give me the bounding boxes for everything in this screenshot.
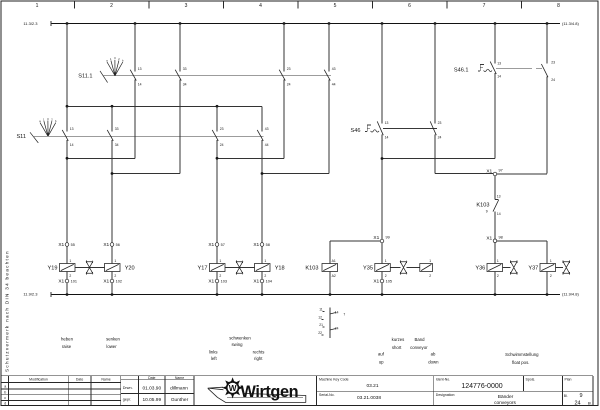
- coil Y19: [48, 259, 75, 278]
- svg-text:99: 99: [386, 236, 390, 240]
- svg-text:(11.9/4.8): (11.9/4.8): [562, 292, 579, 297]
- svg-text:raise: raise: [62, 344, 72, 349]
- svg-text:senken: senken: [106, 337, 120, 342]
- svg-text:13: 13: [138, 67, 142, 71]
- svg-text:Ident-No.: Ident-No.: [436, 378, 450, 382]
- svg-text:X1: X1: [208, 242, 214, 248]
- terminal X1:98: [486, 235, 502, 242]
- svg-text:lower: lower: [106, 344, 117, 349]
- svg-text:9: 9: [579, 393, 582, 399]
- svg-text:103: 103: [221, 280, 227, 284]
- function label links/left: [209, 350, 218, 362]
- svg-text:2: 2: [110, 3, 113, 9]
- wire X1:99 branch to K103 coil: [330, 241, 380, 264]
- svg-text:1: 1: [43, 117, 45, 121]
- function label heben/raise: [61, 337, 74, 349]
- svg-text:22: 22: [318, 331, 322, 335]
- coil K103: [305, 259, 337, 278]
- junction top bus x329: [328, 22, 331, 25]
- junction bottom bus x112: [111, 293, 114, 296]
- coil Y36: [475, 259, 502, 278]
- svg-text:Y20: Y20: [125, 266, 135, 272]
- svg-text:14: 14: [497, 212, 501, 216]
- contact S46.1 23/24: [541, 24, 555, 174]
- svg-text:23: 23: [551, 61, 555, 65]
- Wirtgen logo gear emblem: [223, 378, 242, 397]
- terminal X1:58: [253, 242, 270, 248]
- svg-text:a: a: [39, 120, 41, 123]
- svg-text:2: 2: [264, 274, 266, 278]
- svg-text:55: 55: [71, 243, 75, 247]
- svg-text:Date: Date: [76, 377, 83, 381]
- svg-text:a: a: [106, 59, 108, 62]
- svg-text:K103: K103: [305, 266, 318, 272]
- junction x217 y158: [216, 157, 219, 160]
- function label kurzes Band/short conveyor: [392, 337, 428, 350]
- junction x382 y158: [381, 157, 384, 160]
- svg-text:03.21: 03.21: [366, 383, 378, 389]
- contact S11.1 13/14: [130, 24, 141, 159]
- svg-text:14: 14: [497, 74, 501, 78]
- svg-text:X1: X1: [208, 279, 214, 285]
- terminal X1:101: [58, 279, 77, 285]
- junction x112 y173: [111, 172, 114, 175]
- svg-text:101: 101: [71, 280, 77, 284]
- svg-text:Serial-No.: Serial-No.: [319, 393, 335, 397]
- svg-text:5: 5: [334, 3, 337, 9]
- svg-text:11: 11: [319, 307, 323, 311]
- svg-text:dillmann: dillmann: [170, 385, 188, 391]
- coil Y20: [105, 259, 135, 278]
- svg-text:X1: X1: [373, 235, 379, 241]
- svg-text:11.3/2.3: 11.3/2.3: [23, 21, 38, 26]
- contact S46.1 13/14: [490, 24, 501, 159]
- svg-text:33: 33: [183, 67, 187, 71]
- svg-text:01.03.90: 01.03.90: [142, 385, 161, 391]
- svg-text:Designation:: Designation:: [436, 393, 455, 397]
- svg-text:Bänder: Bänder: [498, 394, 514, 400]
- svg-text:short: short: [392, 345, 402, 350]
- switch S11 actuator: [16, 117, 57, 143]
- svg-text:b: b: [122, 58, 124, 62]
- contact S11 23/24: [212, 106, 223, 242]
- svg-text:1: 1: [550, 259, 552, 263]
- svg-text:2: 2: [114, 274, 116, 278]
- svg-text:13: 13: [70, 127, 74, 131]
- wire X1:56 to Y20: [111, 246, 113, 263]
- svg-text:Wirtgen: Wirtgen: [241, 383, 299, 401]
- svg-text:X1: X1: [253, 242, 259, 248]
- svg-text:X1: X1: [58, 242, 64, 248]
- svg-text:d: d: [4, 401, 6, 405]
- svg-text:24: 24: [287, 83, 291, 87]
- svg-text:heben: heben: [61, 337, 74, 342]
- wire bus to S11 rail x67: [66, 24, 68, 107]
- svg-text:swing: swing: [232, 342, 244, 347]
- svg-text:X1: X1: [103, 242, 109, 248]
- S11 mechanical link: [34, 135, 264, 137]
- svg-text:X1: X1: [486, 235, 492, 241]
- svg-text:44: 44: [265, 143, 269, 147]
- wire X1:104 to bus: [261, 283, 263, 294]
- svg-text:33: 33: [115, 127, 119, 131]
- revision row letters a-d: [4, 384, 6, 405]
- svg-text:schwenken: schwenken: [229, 335, 251, 340]
- svg-text:Schwimmstellung: Schwimmstellung: [505, 352, 539, 357]
- junction top bus x547: [546, 22, 549, 25]
- svg-text:conveyor: conveyor: [410, 345, 428, 350]
- svg-text:13: 13: [385, 121, 389, 125]
- junction bottom bus x382: [381, 293, 384, 296]
- junction top bus x135: [134, 22, 137, 25]
- svg-text:124776-0000: 124776-0000: [461, 383, 502, 390]
- svg-text:2: 2: [69, 274, 71, 278]
- wire S11 feed rail y106: [67, 105, 262, 107]
- contact S11.1 43/44: [324, 24, 335, 174]
- svg-text:7: 7: [343, 313, 345, 317]
- function label auf/up: [378, 352, 385, 365]
- svg-text:6: 6: [408, 3, 411, 9]
- svg-text:1: 1: [69, 259, 71, 263]
- junction bottom bus x495: [494, 293, 497, 296]
- svg-text:10.05.99: 10.05.99: [142, 397, 161, 403]
- contact S11 13/14: [62, 106, 73, 242]
- svg-text:1: 1: [429, 259, 431, 263]
- svg-text:left: left: [211, 356, 218, 361]
- svg-text:7: 7: [483, 3, 486, 9]
- svg-text:1: 1: [385, 259, 387, 263]
- svg-text:c: c: [4, 396, 6, 400]
- wire X1:97 to K103 contact: [495, 176, 499, 200]
- svg-text:conveyors: conveyors: [494, 400, 516, 406]
- contact S11.1 23/24: [279, 24, 290, 159]
- svg-text:A1: A1: [332, 259, 336, 263]
- svg-text:Schutzvermerk nach DIN 34 beac: Schutzvermerk nach DIN 34 beachten: [5, 250, 10, 372]
- coil Y37: [528, 259, 555, 278]
- svg-text:Band: Band: [414, 337, 425, 342]
- svg-text:03.21.0038: 03.21.0038: [357, 395, 381, 401]
- wire S11.1(34) to Y20 branch y173: [112, 173, 180, 175]
- junction bottom bus x262: [261, 293, 264, 296]
- junction x67 y158: [66, 157, 69, 160]
- svg-text:X1: X1: [58, 279, 64, 285]
- wire X1:57 to Y17: [216, 246, 218, 263]
- S46 mechanical link: [383, 128, 437, 130]
- svg-text:1: 1: [497, 259, 499, 263]
- wire Y19 to X1:101: [66, 272, 68, 280]
- svg-text:auf: auf: [378, 352, 385, 357]
- svg-text:43: 43: [332, 67, 336, 71]
- svg-text:56: 56: [116, 243, 120, 247]
- svg-text:S11.1: S11.1: [78, 74, 92, 80]
- node L- bottom bus wire: [51, 292, 560, 297]
- wire S46.1(14) down-left to x382 y158: [382, 158, 495, 160]
- switch S11.1 actuator: [78, 56, 124, 82]
- wire X1:102 to bus: [111, 283, 113, 294]
- terminal X1:104: [253, 279, 272, 285]
- terminal X1:102: [103, 279, 122, 285]
- svg-text:8: 8: [557, 3, 560, 9]
- function label rechts/right: [253, 350, 265, 362]
- svg-text:13: 13: [497, 62, 501, 66]
- svg-text:23: 23: [220, 127, 224, 131]
- svg-text:ab: ab: [431, 352, 436, 357]
- svg-text:links: links: [209, 350, 218, 355]
- svg-text:9: 9: [486, 210, 488, 214]
- S46.1 mechanical link: [496, 67, 542, 69]
- svg-text:34: 34: [183, 83, 187, 87]
- junction top bus x180: [179, 22, 182, 25]
- svg-text:0: 0: [47, 117, 49, 121]
- wire K103 to bus: [329, 272, 331, 295]
- svg-text:right: right: [254, 356, 263, 361]
- wire X1:98 to Y36: [494, 243, 496, 264]
- column numbers 1-8: [36, 3, 561, 9]
- svg-text:Gunther: Gunther: [171, 397, 189, 403]
- svg-text:Plan: Plan: [565, 378, 572, 382]
- function label Schwimmstellung/float pos.: [505, 352, 539, 365]
- coil Y17: [198, 259, 225, 278]
- svg-text:Y36: Y36: [475, 266, 485, 272]
- svg-text:24: 24: [574, 400, 580, 406]
- svg-text:Date: Date: [148, 376, 155, 380]
- svg-text:W: W: [229, 384, 237, 393]
- svg-text:S11: S11: [16, 134, 26, 140]
- wire X1:103 to bus: [216, 283, 218, 294]
- svg-text:23: 23: [287, 67, 291, 71]
- junction bottom bus x67: [66, 293, 69, 296]
- junction top bus x435: [434, 22, 437, 25]
- svg-text:float pos.: float pos.: [512, 360, 529, 365]
- svg-text:44: 44: [332, 83, 336, 87]
- svg-text:2: 2: [497, 274, 499, 278]
- svg-text:Name: Name: [101, 377, 110, 381]
- svg-text:34: 34: [115, 143, 119, 147]
- wire S46(24)+S46.1(24) to terminal X1:97 y173: [435, 172, 547, 174]
- valve symbol Y17/Y18: [225, 260, 255, 274]
- function label senken/lower: [106, 337, 120, 349]
- junction top bus x284: [283, 22, 286, 25]
- svg-text:X1: X1: [373, 279, 379, 285]
- svg-text:Drwn.: Drwn.: [123, 386, 133, 390]
- svg-text:4: 4: [259, 3, 262, 9]
- contact S46 23/24: [430, 24, 441, 174]
- svg-text:A2: A2: [332, 274, 336, 278]
- svg-text:23: 23: [438, 121, 442, 125]
- svg-text:3: 3: [185, 3, 188, 9]
- svg-text:13: 13: [497, 194, 501, 198]
- svg-text:Y35: Y35: [363, 266, 373, 272]
- svg-text:2: 2: [429, 274, 431, 278]
- junction rail x217: [216, 105, 219, 108]
- svg-text:12: 12: [318, 316, 322, 320]
- svg-text:K103: K103: [476, 203, 489, 209]
- function label ab/down: [428, 352, 439, 365]
- junction bottom bus x547: [546, 293, 549, 296]
- svg-text:Y37: Y37: [528, 266, 538, 272]
- svg-text:1: 1: [264, 259, 266, 263]
- svg-text:(11.3/4.8): (11.3/4.8): [562, 21, 579, 26]
- valve symbol Y19/Y20: [75, 260, 105, 274]
- svg-text:24: 24: [220, 143, 224, 147]
- node L+ top bus wire: [51, 21, 560, 26]
- wire X1:98 branch to Y37: [497, 241, 547, 264]
- svg-text:kurzes: kurzes: [392, 337, 405, 342]
- svg-text:2: 2: [51, 117, 53, 121]
- coil Y18: [255, 259, 285, 278]
- svg-text:Y19: Y19: [48, 266, 58, 272]
- junction bottom bus x217: [216, 293, 219, 296]
- svg-text:24: 24: [438, 136, 442, 140]
- Wirtgen logo machine silhouette: [208, 387, 306, 402]
- svg-text:58: 58: [266, 243, 270, 247]
- svg-text:Machine Key Code: Machine Key Code: [319, 378, 349, 382]
- wire S11.1(14) to Y19 branch y158: [67, 157, 135, 159]
- svg-text:14: 14: [335, 310, 339, 314]
- function label schwenken/swing: [229, 335, 251, 347]
- junction top bus x67: [66, 22, 69, 25]
- terminal X1:103: [208, 279, 227, 285]
- wire Y17 to X1:103: [216, 272, 218, 280]
- svg-text:105: 105: [386, 280, 392, 284]
- svg-text:1: 1: [36, 3, 39, 9]
- wire S11.1(24) to Y17 branch y158: [217, 157, 284, 159]
- svg-text:Y18: Y18: [275, 266, 285, 272]
- svg-text:0: 0: [114, 56, 116, 60]
- contact K103 13/14: [476, 194, 500, 239]
- terminal X1:105: [373, 279, 392, 285]
- terminal X1:97: [486, 169, 502, 176]
- contact mirror K103: [318, 307, 345, 338]
- terminal X1:57: [208, 242, 225, 248]
- svg-text:a: a: [4, 384, 6, 388]
- svg-text:1: 1: [110, 57, 112, 61]
- svg-text:Bl.: Bl.: [564, 394, 568, 398]
- svg-text:2: 2: [550, 274, 552, 278]
- svg-text:Name: Name: [175, 376, 184, 380]
- terminal X1:55: [58, 242, 75, 248]
- valve symbol Y35: [390, 260, 406, 274]
- svg-text:Bl.: Bl.: [588, 401, 592, 405]
- svg-text:2: 2: [385, 274, 387, 278]
- svg-text:43: 43: [265, 127, 269, 131]
- svg-text:down: down: [428, 360, 439, 365]
- svg-text:97: 97: [499, 169, 503, 173]
- wire X1:101 to bus: [66, 283, 68, 294]
- svg-text:X1: X1: [486, 169, 492, 175]
- svg-text:14: 14: [70, 143, 74, 147]
- valve symbol Y36: [503, 260, 518, 274]
- svg-text:S46: S46: [351, 128, 361, 134]
- wire X1:55 to Y19: [66, 246, 68, 263]
- svg-text:Spois.: Spois.: [526, 378, 536, 382]
- wire Y36 to bus: [494, 272, 496, 295]
- svg-text:Modification: Modification: [29, 377, 48, 381]
- contact S11.1 33/34: [175, 24, 186, 174]
- junction top bus x382: [381, 22, 384, 25]
- contact S46 13/14: [377, 24, 388, 240]
- column ticks top border: [75, 1, 522, 9]
- svg-text:gepr.: gepr.: [123, 398, 131, 402]
- svg-text:up: up: [379, 360, 384, 365]
- svg-text:14: 14: [138, 83, 142, 87]
- svg-text:1: 1: [114, 259, 116, 263]
- terminal X1:56: [103, 242, 120, 248]
- wire Y18 to X1:104: [261, 272, 263, 280]
- valve symbol Y37: [556, 260, 570, 274]
- sheet info Bl. 9: [564, 393, 592, 406]
- svg-text:X1: X1: [103, 279, 109, 285]
- junction bottom bus x330: [329, 293, 332, 296]
- wire X1:105 to bus: [381, 283, 383, 294]
- svg-text:X1: X1: [253, 279, 259, 285]
- junction top bus x495: [494, 22, 497, 25]
- contact S11 43/44: [257, 106, 268, 242]
- switch S46.1 actuator: [454, 65, 492, 74]
- svg-text:24: 24: [335, 326, 339, 330]
- svg-text:14: 14: [385, 136, 389, 140]
- svg-text:11.9/2.3: 11.9/2.3: [23, 292, 38, 297]
- svg-text:rechts: rechts: [253, 350, 265, 355]
- wire Y37 to bus: [546, 272, 548, 295]
- wire Y35 to X1:105: [381, 272, 383, 280]
- svg-text:S46.1: S46.1: [454, 68, 469, 74]
- svg-text:98: 98: [499, 235, 503, 239]
- svg-text:1: 1: [219, 259, 221, 263]
- wire Y20 to X1:102: [111, 272, 113, 280]
- svg-text:24: 24: [551, 78, 555, 82]
- S11.1 mechanical link: [104, 75, 332, 77]
- junction rail x112: [111, 105, 114, 108]
- switch S46 actuator: [351, 125, 379, 134]
- svg-text:104: 104: [266, 280, 272, 284]
- coil Y35: [363, 259, 390, 278]
- junction rail x67: [66, 105, 69, 108]
- junction x262 y173: [261, 172, 264, 175]
- contact S11 33/34: [107, 106, 118, 242]
- svg-text:2: 2: [118, 57, 120, 61]
- wire S11.1(44) to Y18 branch y173: [262, 173, 329, 175]
- svg-text:21: 21: [319, 323, 323, 327]
- coil (pilot) of Y35 valve: [407, 259, 433, 278]
- svg-text:Y17: Y17: [198, 266, 208, 272]
- wire X1:99 to Y35: [381, 243, 383, 264]
- svg-text:b: b: [55, 119, 57, 123]
- svg-text:2: 2: [219, 274, 221, 278]
- title block grid: [1, 376, 593, 406]
- svg-text:b: b: [4, 390, 6, 394]
- svg-text:102: 102: [116, 280, 122, 284]
- wire X1:58 to Y18: [261, 246, 263, 263]
- terminal X1:99: [373, 235, 389, 243]
- svg-text:57: 57: [221, 243, 225, 247]
